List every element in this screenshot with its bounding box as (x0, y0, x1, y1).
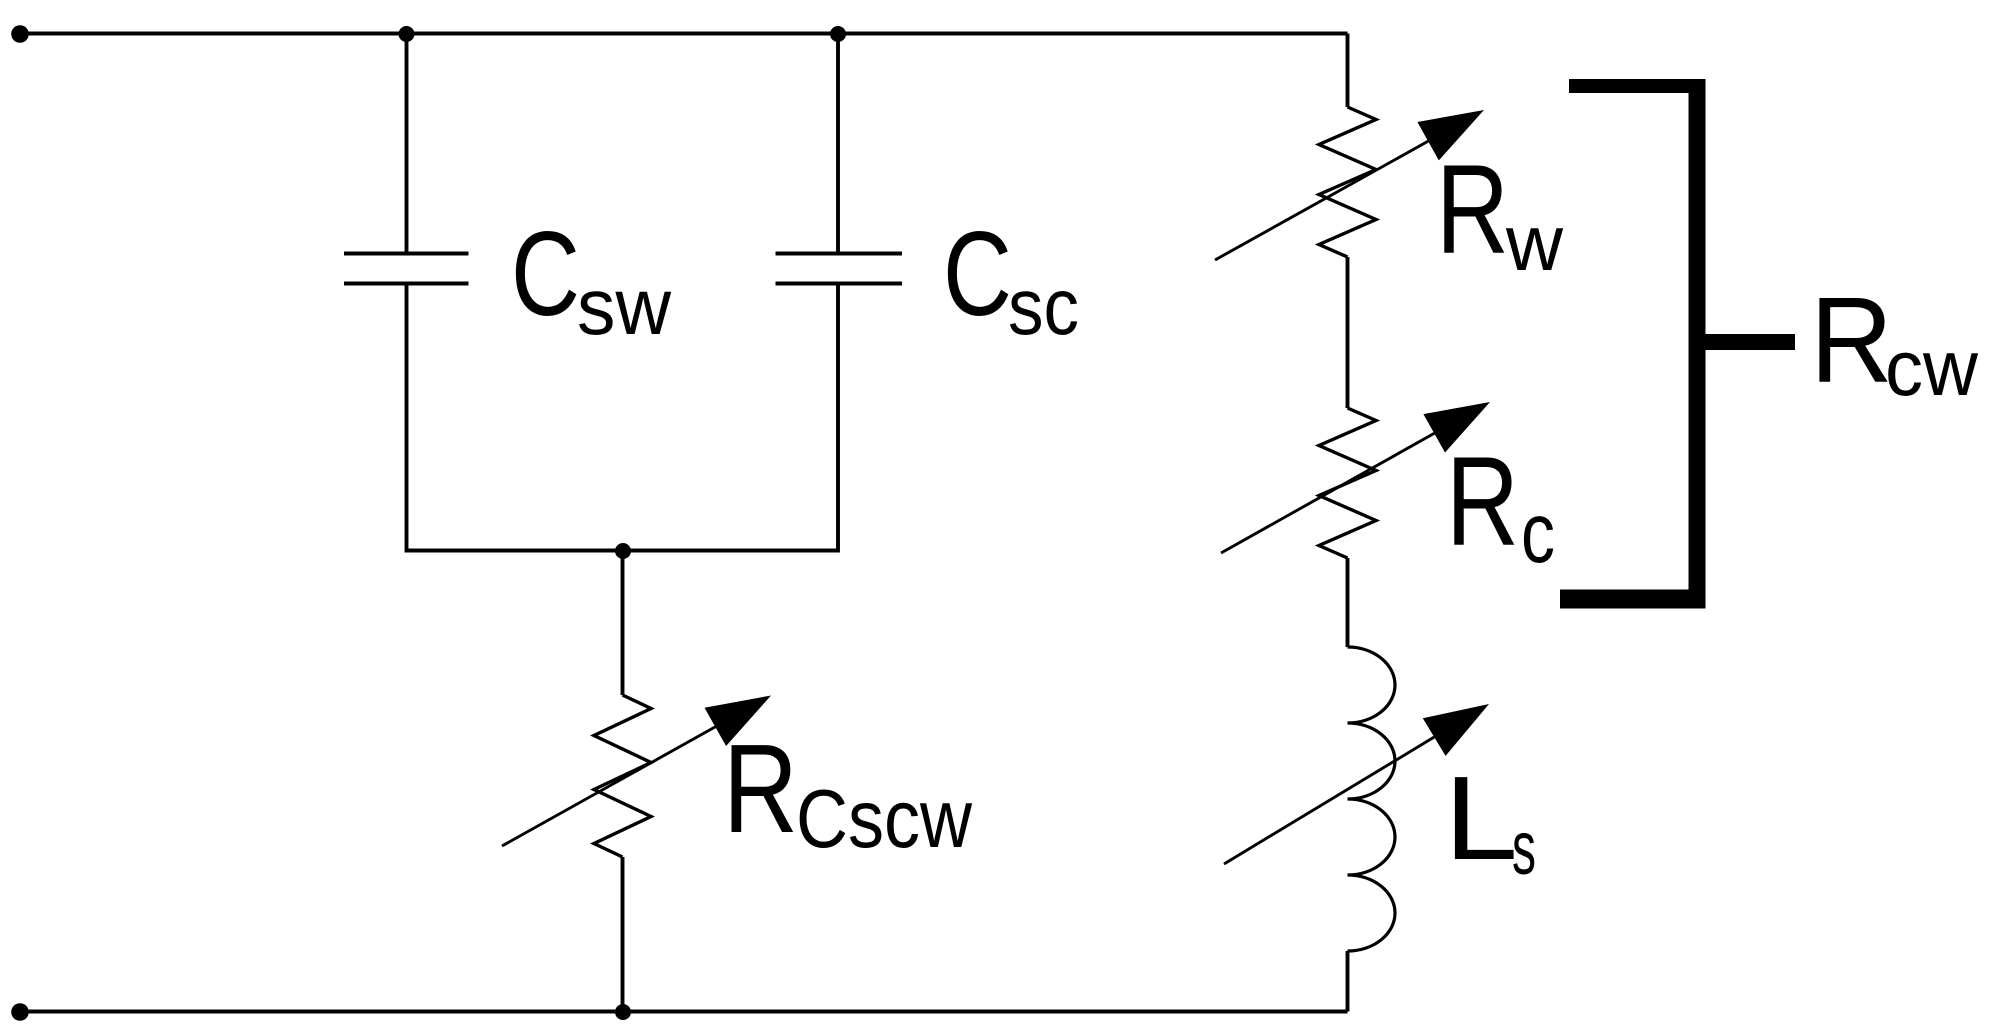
wire right branch top (1346, 34, 1350, 108)
wire between Rc and Ls (1346, 558, 1350, 647)
node junction top Csw (399, 26, 415, 42)
arrow Rc shaft (1221, 427, 1446, 554)
svg-text:C: C (943, 207, 1012, 341)
svg-text:cw: cw (1885, 323, 1979, 412)
label Rw (1436, 138, 1564, 287)
svg-text:sw: sw (577, 262, 671, 351)
label Rcw (1810, 272, 1979, 412)
wire RCscw top lead (621, 551, 625, 695)
svg-text:R: R (1446, 430, 1519, 572)
node junction middle (615, 543, 631, 559)
arrow Rc head (1423, 402, 1490, 453)
svg-text:w: w (1505, 198, 1564, 287)
label Rc (1446, 430, 1555, 581)
wire Csw bottom lead, middle rail, Csc bottom lead (407, 284, 839, 551)
wire RCscw bottom lead (621, 857, 625, 1012)
arrow Rw shaft (1215, 134, 1440, 260)
arrow RCscw head (705, 696, 772, 747)
svg-text:L: L (1444, 752, 1518, 885)
label Csc (943, 207, 1079, 351)
wire top rail (20, 32, 1348, 36)
svg-text:c: c (1521, 486, 1555, 581)
resistor RCscw (594, 695, 651, 857)
wire between Rw and Rc (1346, 257, 1350, 408)
wire bottom rail (20, 1010, 1348, 1014)
capacitor Csc (776, 254, 903, 284)
arrow Ls head (1423, 704, 1489, 756)
node junction bottom (615, 1004, 631, 1020)
wire Csw top lead (405, 34, 409, 254)
arrow Rw head (1417, 110, 1484, 160)
label Csw (511, 207, 671, 351)
label Ls (1444, 752, 1536, 891)
svg-text:C: C (511, 207, 580, 341)
svg-text:s: s (1512, 806, 1536, 891)
arrow RCscw shaft (502, 720, 728, 846)
node bottom-left terminal (11, 1003, 29, 1021)
bracket Rcw (1560, 79, 1795, 608)
label RCscw (723, 718, 973, 865)
node junction top Csc (830, 26, 846, 42)
node top-left terminal (11, 25, 29, 43)
wire Csc top lead (836, 34, 840, 254)
svg-text:R: R (1810, 272, 1893, 408)
wire Ls bottom lead (1346, 951, 1350, 1012)
capacitor Csw (344, 254, 469, 284)
resistor Rw (1319, 107, 1376, 257)
arrow Ls shaft (1224, 730, 1446, 864)
svg-text:sc: sc (1008, 262, 1079, 351)
svg-text:Cscw: Cscw (796, 772, 973, 865)
inductor Ls (1348, 647, 1396, 951)
svg-text:R: R (723, 718, 798, 859)
resistor Rc (1319, 408, 1376, 558)
svg-text:R: R (1436, 138, 1509, 280)
